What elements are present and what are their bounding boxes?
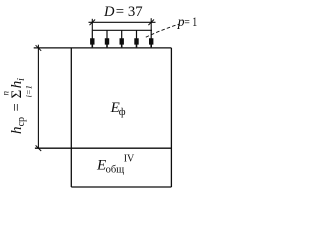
svg-text:ср: ср: [16, 117, 27, 126]
svg-text:i=1: i=1: [24, 85, 34, 97]
svg-text:n: n: [1, 91, 11, 96]
extension line left: [91, 19, 93, 31]
label E_obsh with superscript IV: [96, 154, 135, 176]
wire ground surface top line: [34, 47, 172, 49]
wire divider line with left extension: [35, 147, 172, 149]
load arrow 1: [90, 30, 94, 47]
tick left of D dimension: [90, 20, 96, 26]
label h_cp = sum h_i (rotated): [1, 78, 34, 134]
svg-text:i: i: [16, 78, 27, 81]
tick top of h dimension: [36, 45, 42, 51]
svg-text:IV: IV: [124, 154, 135, 165]
label p = 1: [177, 14, 197, 29]
load arrow 5: [149, 30, 153, 47]
tick right of D dimension: [148, 20, 154, 26]
svg-text:h: h: [9, 127, 25, 135]
svg-text:ф: ф: [119, 107, 126, 118]
wire load line: [92, 29, 152, 31]
dimension line D (horizontal, top): [89, 21, 156, 23]
load arrow 4: [134, 30, 138, 47]
dimension line h_cp (vertical, left): [37, 45, 39, 149]
svg-text:= 37: = 37: [116, 4, 143, 20]
svg-text:h: h: [9, 81, 25, 89]
tick bottom of h dimension: [36, 145, 42, 151]
load arrow 2: [105, 30, 109, 47]
svg-text:D: D: [103, 4, 115, 20]
leader line to p label (dashed): [146, 24, 180, 37]
svg-text:общ: общ: [106, 164, 125, 175]
wire box left edge: [70, 48, 72, 187]
wire box right edge: [170, 48, 172, 187]
svg-text:= 1: = 1: [184, 14, 197, 29]
extension line right: [150, 18, 152, 30]
load arrow 3: [120, 30, 124, 47]
wire box bottom edge: [71, 186, 171, 188]
svg-text:=: =: [9, 103, 25, 111]
label E_phi: [110, 100, 126, 118]
label D = 37: [103, 4, 143, 20]
